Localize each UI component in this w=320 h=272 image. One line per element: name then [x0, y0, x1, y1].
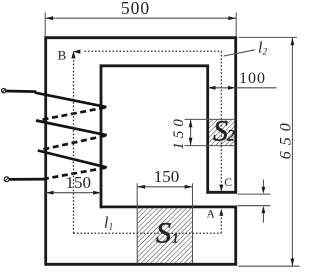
- coil turn 3 front (solid): [38, 151, 107, 168]
- terminal circle top: [2, 89, 6, 93]
- core outer left edge: [44, 36, 47, 265]
- svg-text:150: 150: [154, 167, 180, 186]
- S1 cross-section hatch: [137, 206, 192, 264]
- terminal circle bottom: [4, 177, 9, 182]
- svg-text:A: A: [206, 208, 215, 220]
- dimension 100 left arrow: [208, 86, 216, 90]
- flux path top yoke (dotted): [85, 50, 222, 52]
- dimension 150 left limb right arrow: [93, 191, 101, 195]
- flux path left limb (dotted): [73, 57, 75, 233]
- dimension 150 left limb line: [46, 192, 101, 194]
- svg-text:650: 650: [277, 117, 294, 159]
- S2 extension line bottom: [185, 145, 236, 147]
- svg-text:B: B: [58, 48, 67, 63]
- coil turn 3 back (dashed): [45, 168, 106, 179]
- coil turn 2 back (dashed): [40, 136, 106, 151]
- window right edge: [206, 65, 209, 194]
- flux path bottom yoke (dotted): [74, 232, 222, 234]
- svg-text:150: 150: [171, 115, 187, 150]
- dimension 100 right arrow: [228, 86, 236, 90]
- window top edge: [100, 64, 209, 67]
- air gap lower arrow: [262, 206, 266, 213]
- core outer right edge lower segment (below air gap): [234, 206, 237, 266]
- flux path gap lower tail (dotted): [220, 214, 222, 233]
- core outer bottom edge: [45, 263, 238, 266]
- node C down arrow: [219, 185, 223, 192]
- dimension 500 line: [45, 17, 236, 19]
- svg-text:100: 100: [239, 70, 266, 87]
- dimension 150 S1 extension line left: [136, 183, 138, 205]
- flux path right limb (dotted): [220, 51, 222, 186]
- coil turn 1 front (solid): [35, 93, 107, 108]
- air gap dimension lower tail: [262, 213, 264, 223]
- dimension 150 S2 down arrow: [189, 138, 193, 146]
- window left edge: [100, 65, 103, 209]
- dimension 500 right arrow: [228, 16, 236, 20]
- dimension 150 S2 up arrow: [189, 120, 193, 128]
- svg-text:C: C: [224, 177, 232, 189]
- S2 extension line top: [185, 118, 236, 120]
- dimension 650 extension line bottom: [239, 265, 300, 267]
- dimension 650 bottom arrow: [291, 259, 295, 267]
- dimension 100 line: [208, 87, 277, 89]
- dimension 650 top arrow: [291, 38, 295, 46]
- dimension 500 extension line left: [44, 13, 46, 37]
- air gap extension line lower: [238, 205, 271, 207]
- core outer right edge upper segment (above air gap): [234, 36, 237, 193]
- right limb bottom face (gap upper face, node C side): [206, 191, 237, 194]
- dimension 150 S1 right arrow: [185, 185, 193, 189]
- dimension 150 S2 vertical line: [190, 119, 192, 145]
- air gap upper arrow: [262, 187, 266, 194]
- svg-text:1: 1: [172, 230, 179, 245]
- dimension 150 S1 left arrow: [137, 185, 145, 189]
- l2 leader line: [224, 50, 255, 56]
- dimension 500 extension line right: [235, 13, 237, 37]
- dimension 150 left limb left arrow: [46, 191, 54, 195]
- svg-text:S: S: [156, 217, 171, 250]
- svg-text:500: 500: [121, 0, 150, 18]
- dimension 150 S1 extension line right: [192, 183, 194, 205]
- bottom yoke top edge (gap lower face, node A side): [100, 205, 237, 208]
- core outer top edge: [45, 36, 238, 39]
- S2 cross-section hatch: [209, 120, 234, 145]
- node B up arrow: [71, 51, 75, 59]
- dimension 150 S1 line: [137, 186, 192, 188]
- coil turn 2 front (solid): [36, 121, 107, 136]
- wire top terminal: [6, 90, 36, 93]
- svg-text:2: 2: [227, 128, 235, 145]
- node A up arrow: [219, 209, 223, 216]
- dimension 500 left arrow: [45, 16, 53, 20]
- svg-text:S: S: [213, 115, 228, 148]
- svg-text:150: 150: [66, 173, 92, 192]
- dimension 650 extension line top: [239, 36, 298, 38]
- air gap dimension upper tail: [262, 180, 264, 188]
- node B left arrow: [73, 50, 81, 54]
- air gap extension line upper: [238, 193, 271, 195]
- wire bottom terminal: [9, 178, 45, 181]
- dimension 650 line: [291, 37, 293, 266]
- coil turn 1 back (dashed): [39, 108, 105, 121]
